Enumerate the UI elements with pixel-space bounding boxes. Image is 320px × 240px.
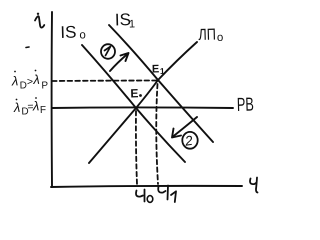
curve LP0 (LM): [89, 42, 197, 163]
Y axis (horizontal): [51, 186, 242, 187]
svg-text:PB: PB: [237, 95, 255, 116]
dashed horizontal at iD>iF level: [52, 80, 157, 83]
svg-text:λ: λ: [11, 73, 19, 88]
curve IS0: [82, 45, 185, 162]
label y (axis end), handwritten: [250, 179, 256, 185]
label i (axis), handwritten script: [35, 16, 44, 27]
i axis (vertical): [51, 12, 53, 186]
circle of circled 2: [182, 132, 197, 149]
svg-text:λ: λ: [13, 100, 21, 115]
svg-text:1: 1: [160, 66, 165, 76]
svg-text:P: P: [41, 80, 48, 91]
svg-text:E: E: [130, 86, 138, 100]
svg-text:1: 1: [129, 18, 135, 30]
svg-text:λ: λ: [32, 98, 40, 113]
arrow 1 head: [121, 53, 129, 61]
line PB (horizontal): [52, 106, 233, 109]
label y0 below axis: [136, 191, 143, 197]
svg-text:λ: λ: [32, 72, 40, 87]
svg-text:ЛП: ЛП: [198, 27, 216, 44]
curve IS1: [109, 25, 213, 142]
stray dot: [26, 46, 29, 49]
svg-text:F: F: [40, 105, 46, 116]
svg-text:o: o: [217, 32, 224, 44]
dashed vertical at y0: [136, 111, 137, 184]
label y1 below axis: [158, 187, 165, 193]
svg-text:IS: IS: [60, 23, 77, 42]
digit 1 inside circle: [105, 47, 111, 56]
svg-text:>: >: [27, 76, 33, 88]
circle of circled 1: [101, 44, 115, 59]
arrow 2 head: [172, 129, 181, 138]
dashed vertical at y1: [156, 84, 158, 184]
svg-text:o: o: [79, 29, 86, 41]
arrow 1 shaft: [110, 54, 128, 72]
arrow 2 shaft: [173, 117, 197, 137]
svg-text:E: E: [152, 63, 160, 75]
